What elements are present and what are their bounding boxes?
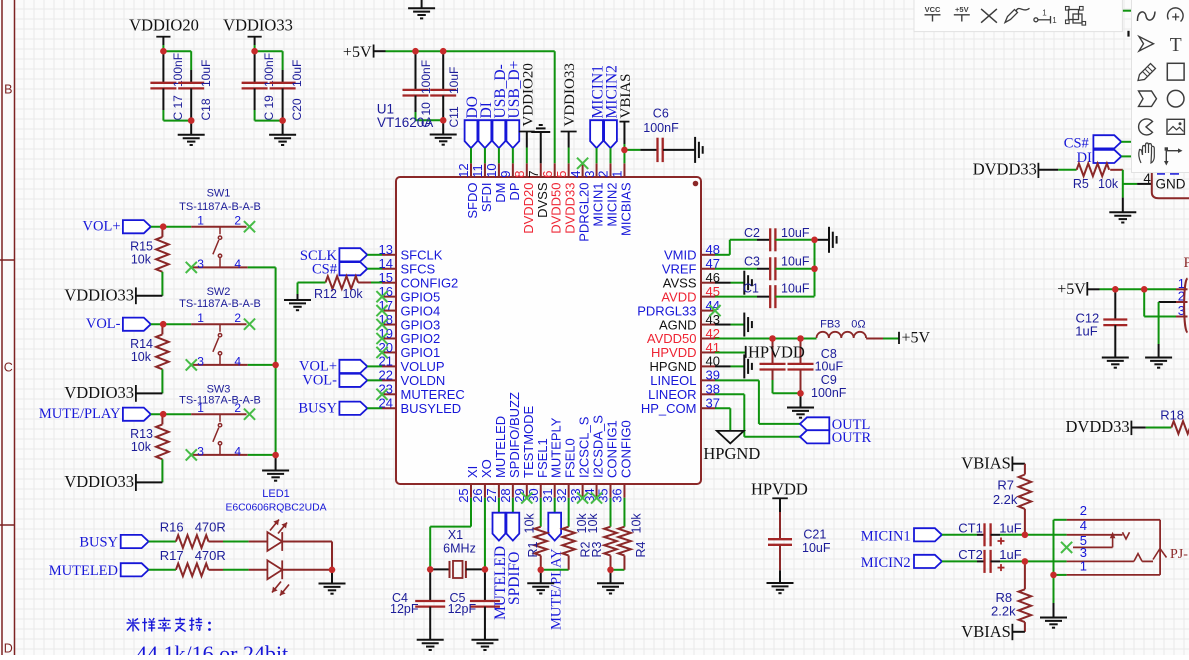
- svg-text:100nF: 100nF: [811, 386, 847, 400]
- no-connect X pin 20: [376, 347, 387, 358]
- svg-text:1uF: 1uF: [999, 547, 1021, 562]
- net flag HPVDD pin41: [715, 342, 805, 361]
- wire: [223, 569, 249, 571]
- ic U1 bottom pin 35 CONFIG1: [596, 420, 620, 503]
- svg-text:LED1: LED1: [262, 488, 290, 500]
- svg-text:10: 10: [484, 163, 499, 177]
- jack right edge: [1159, 520, 1161, 575]
- svg-text:28: 28: [498, 488, 513, 502]
- wire: [610, 498, 612, 527]
- svg-text:MICIN2: MICIN2: [605, 183, 620, 227]
- svg-text:VBIAS: VBIAS: [961, 454, 1011, 473]
- capacitor C12 1uF: [1075, 289, 1127, 357]
- wire: [331, 542, 333, 570]
- ic U1 bottom pin 25 XI: [456, 466, 480, 503]
- no-connect X pin 29: [521, 492, 532, 503]
- ic U1 left pin 24 BUSYLED: [379, 396, 462, 416]
- port flag VOL-: [302, 373, 382, 389]
- net flag VBIAS pin1: [618, 73, 634, 163]
- svg-text:3: 3: [582, 171, 597, 178]
- wire pin38: [715, 394, 800, 437]
- wire: [540, 498, 542, 527]
- svg-text:DVDD20: DVDD20: [521, 183, 536, 234]
- junction: [427, 566, 434, 573]
- svg-text:TS-1187A-B-A-B: TS-1187A-B-A-B: [179, 394, 261, 406]
- svg-text:VDDIO33: VDDIO33: [64, 285, 134, 304]
- no-connect X pin5: [1061, 542, 1072, 553]
- junction: [440, 117, 447, 124]
- ground: [1109, 198, 1136, 223]
- svg-text:C 19: C 19: [262, 95, 276, 121]
- capacitor C17 100nF: [150, 51, 185, 120]
- svg-text:26: 26: [470, 488, 485, 502]
- svg-text:100nF: 100nF: [643, 121, 679, 135]
- icon rect: [1167, 63, 1184, 80]
- icon arc pie: [1139, 119, 1153, 135]
- svg-text:10k: 10k: [586, 513, 600, 534]
- svg-text:SW2: SW2: [207, 286, 231, 298]
- no-connect X: [186, 359, 197, 370]
- capacitor C5 12pF: [448, 569, 500, 639]
- jack arrow: [1110, 532, 1116, 548]
- wire: [161, 369, 163, 393]
- ground: [527, 570, 554, 594]
- junction: [797, 335, 804, 342]
- junction: [1022, 532, 1029, 539]
- ic U1 top pin 11 SFDI: [470, 163, 494, 212]
- svg-text:GND: GND: [1156, 177, 1186, 192]
- svg-text:10uF: 10uF: [781, 226, 810, 240]
- svg-text:CT2: CT2: [958, 547, 983, 562]
- svg-text:1: 1: [197, 401, 204, 415]
- led arrows: [270, 520, 287, 534]
- wire pin4 row: [1025, 534, 1123, 536]
- port flag VOL-: [86, 316, 151, 332]
- wire pin42: [715, 338, 773, 340]
- svg-text:10k: 10k: [131, 350, 152, 364]
- svg-text:GPIO4: GPIO4: [401, 303, 441, 318]
- ground: [815, 227, 837, 253]
- junction: [1050, 572, 1057, 579]
- svg-text:4: 4: [234, 355, 241, 369]
- svg-text:10uF: 10uF: [815, 360, 844, 374]
- ic U1 top pin 6 DVDD50: [540, 163, 564, 233]
- ic U1 left pin 14 SFCS: [379, 256, 436, 276]
- jack pin numbers: [1080, 503, 1087, 574]
- port flag SPDIFO: [506, 498, 523, 605]
- svg-text:VDDIO33: VDDIO33: [223, 16, 293, 35]
- icon +5V: [954, 5, 970, 22]
- wire: [1123, 170, 1152, 198]
- svg-text:VOL+: VOL+: [83, 219, 121, 235]
- svg-text:BUSY: BUSY: [298, 401, 337, 417]
- svg-text:SPDIFO: SPDIFO: [506, 552, 523, 605]
- svg-text:R14: R14: [130, 337, 153, 351]
- svg-text:VMID: VMID: [664, 248, 697, 263]
- power flag +5V: [343, 44, 386, 61]
- tool panel: [1132, 0, 1189, 173]
- ic U1 top pin 4 PDRGL20: [568, 163, 592, 241]
- ground: [767, 582, 794, 584]
- no-connect X pin 34: [591, 492, 602, 503]
- svg-text:MICBIAS: MICBIAS: [618, 182, 633, 236]
- svg-text:R1: R1: [526, 541, 540, 557]
- svg-text:12pF: 12pF: [448, 602, 477, 616]
- svg-text:R18: R18: [1160, 407, 1184, 422]
- ic U1 right pin 38 LINEOR: [648, 382, 720, 402]
- ic U1 bottom pin 30 FSEL1: [526, 438, 550, 503]
- port flag VOL+: [83, 219, 151, 235]
- net flag VDDIO20 pin8: [519, 63, 537, 163]
- wire: [223, 541, 249, 543]
- svg-text:6: 6: [540, 171, 555, 178]
- ic U1 bottom pin 36 CONFIG0: [610, 420, 634, 503]
- wire: [248, 266, 276, 268]
- icon bezier: [1137, 12, 1155, 22]
- net flag VDDIO33 pin5: [561, 63, 579, 163]
- ic U1 top pin 5 DVDD33: [554, 163, 578, 233]
- svg-text:DVDD33: DVDD33: [1066, 417, 1130, 436]
- svg-text:5: 5: [554, 171, 569, 178]
- ic U1 bottom pin 26 XO: [470, 459, 494, 503]
- svg-text:X1: X1: [448, 528, 463, 542]
- svg-text:VT1620A: VT1620A: [377, 115, 433, 130]
- wire: [248, 454, 276, 456]
- junction: [621, 147, 628, 154]
- wire jack common: [1053, 520, 1055, 575]
- svg-text:1uF: 1uF: [1075, 324, 1097, 339]
- wire xtal left: [430, 498, 471, 570]
- svg-text:+5V: +5V: [1057, 281, 1086, 298]
- svg-text:GPIO5: GPIO5: [401, 289, 441, 304]
- junction: [160, 48, 167, 55]
- svg-text:VBIAS: VBIAS: [961, 622, 1011, 641]
- wire pin2 row: [1054, 519, 1161, 521]
- svg-text:DVDD50: DVDD50: [549, 183, 564, 234]
- svg-text:R15: R15: [130, 240, 153, 254]
- svg-text:PDRGL20: PDRGL20: [577, 183, 592, 242]
- capacitor C10 100nF: [403, 51, 434, 127]
- port flag MICIN1: [590, 65, 607, 163]
- svg-text:470R: 470R: [195, 520, 226, 535]
- svg-text:AVDD: AVDD: [661, 289, 696, 304]
- svg-text:HPVDD: HPVDD: [748, 342, 805, 361]
- svg-text:C21: C21: [803, 527, 826, 541]
- svg-text:MUTELED: MUTELED: [493, 416, 508, 478]
- port flag MICIN1: [861, 528, 977, 544]
- svg-text:DM: DM: [493, 183, 508, 203]
- svg-text:0Ω: 0Ω: [851, 318, 865, 330]
- svg-text:MUTELED: MUTELED: [49, 563, 118, 579]
- no-connect X pin 19: [376, 333, 387, 344]
- ground: [1102, 357, 1129, 359]
- svg-text:AVDD50: AVDD50: [647, 331, 697, 346]
- net flag DVDD33: [973, 160, 1059, 179]
- wire pin45: [715, 296, 757, 298]
- ic U1 bottom pin 28 SPDIFO/BUZZ: [498, 392, 522, 503]
- ic connector outline: [1152, 173, 1189, 198]
- svg-text:44.1k/16 or 24bit: 44.1k/16 or 24bit: [136, 641, 288, 655]
- wire pin5 row: [1073, 546, 1113, 548]
- capacitor C21 10uF: [768, 512, 831, 583]
- ic U1 bottom pin 29 TESTMODE: [512, 405, 536, 502]
- svg-text:C1: C1: [743, 282, 759, 296]
- port flag USB_D+: [506, 61, 523, 164]
- ground: [787, 393, 814, 417]
- wire: [416, 112, 444, 120]
- crystal X1 6MHz: [430, 528, 485, 578]
- svg-text:FSEL1: FSEL1: [535, 438, 550, 478]
- svg-text:MUTE/PLAY: MUTE/PLAY: [39, 406, 121, 422]
- ground: [262, 455, 289, 481]
- net stub: [1127, 31, 1129, 37]
- svg-text:3: 3: [197, 257, 204, 271]
- svg-text:HP_COM: HP_COM: [641, 401, 697, 416]
- capacitor C2 10uF: [744, 226, 814, 252]
- junction: [160, 223, 167, 230]
- port flag MUTELED (led): [49, 563, 176, 579]
- svg-text:4: 4: [1080, 518, 1087, 533]
- wire: [161, 459, 163, 482]
- svg-text:2: 2: [234, 401, 241, 415]
- wire: [1121, 155, 1131, 157]
- wire: [1159, 301, 1188, 303]
- resistor R15 10k: [130, 227, 169, 272]
- icon X: [981, 9, 997, 23]
- icon pencil: [1138, 64, 1156, 81]
- no-connect X pin 33: [577, 492, 588, 503]
- net flag DVDD33: [1066, 417, 1146, 436]
- svg-text:12pF: 12pF: [390, 602, 419, 616]
- ic U1 right pin 45 AVDD: [661, 284, 720, 304]
- svg-text:C: C: [4, 361, 13, 375]
- ic U1 right pin 43 AGND: [659, 312, 720, 332]
- svg-text:VCC: VCC: [925, 5, 941, 14]
- svg-text:9: 9: [498, 171, 513, 178]
- wire: [151, 323, 191, 325]
- port flag MUTE/PLAY: [548, 498, 564, 630]
- net flag HPVDD: [751, 479, 808, 512]
- capacitor C20 10uF: [270, 60, 305, 121]
- ground pin7 DVSS: [531, 125, 550, 163]
- ic U1 left pin 13 SFCLK: [379, 242, 443, 262]
- capacitor C11 10uF: [430, 51, 461, 127]
- svg-text:27: 27: [484, 488, 499, 502]
- svg-text:1: 1: [197, 213, 204, 227]
- no-connect X: [186, 449, 197, 460]
- svg-text:DVSS: DVSS: [535, 182, 550, 218]
- ic connector pin 4 GND: [1143, 171, 1185, 192]
- svg-text:3: 3: [197, 355, 204, 369]
- net flag VDDIO33: [64, 285, 162, 304]
- ic U1 right pin 42 AVDD50: [647, 326, 720, 346]
- svg-text:VOLUP: VOLUP: [401, 359, 445, 374]
- svg-text:HPGND: HPGND: [703, 444, 760, 463]
- ic U1 bottom pin 27 MUTELED: [484, 416, 508, 503]
- svg-text:2: 2: [234, 311, 241, 325]
- svg-text:10k: 10k: [1098, 177, 1119, 191]
- icon circle: [1167, 90, 1184, 107]
- svg-text:BUSYLED: BUSYLED: [401, 401, 462, 416]
- svg-text:10uF: 10uF: [199, 60, 213, 87]
- port flag MICIN2: [861, 555, 977, 571]
- ground: [743, 271, 745, 295]
- toolbar panel: [914, 0, 1122, 32]
- capacitor CT2 1uF polarized: [958, 547, 1025, 573]
- net flag HPGND arrow: [703, 431, 760, 463]
- wire pin37: [715, 408, 730, 431]
- wire: [1121, 141, 1131, 143]
- ic U1 left pin 23 MUTEREC: [379, 382, 465, 402]
- wire: [1176, 316, 1188, 318]
- svg-text:470R: 470R: [195, 548, 226, 563]
- ferrite bead FB3 0ohm: [817, 318, 884, 338]
- ic U1 right pin 47 VREF: [662, 256, 720, 276]
- ground: [284, 299, 311, 301]
- ic U1 top pin 10 DM: [484, 163, 508, 202]
- ground: [1145, 357, 1172, 359]
- svg-text:MUTEREC: MUTEREC: [401, 387, 465, 402]
- svg-text:C18: C18: [199, 98, 213, 120]
- svg-text:SFDI: SFDI: [479, 183, 494, 213]
- ic U1 bottom pin 32 FSEL0: [554, 438, 578, 503]
- svg-text:+5V: +5V: [902, 330, 931, 347]
- svg-text:R17: R17: [160, 548, 184, 563]
- svg-text:VDDIO20: VDDIO20: [520, 63, 536, 126]
- power flag +5V: [883, 330, 931, 347]
- svg-text:DVDD33: DVDD33: [973, 160, 1037, 179]
- svg-text:HPVDD: HPVDD: [751, 479, 808, 498]
- capacitor C3 10uF: [744, 254, 814, 280]
- junction: [440, 48, 447, 55]
- svg-text:4: 4: [1143, 171, 1151, 186]
- junction: [160, 411, 167, 418]
- svg-text:HPVDD: HPVDD: [651, 345, 697, 360]
- svg-text:VOL-: VOL-: [302, 373, 337, 389]
- svg-text:10uF: 10uF: [781, 282, 810, 296]
- port flag OUTL: [800, 417, 870, 433]
- svg-text:FB3: FB3: [820, 318, 840, 330]
- svg-text:R13: R13: [130, 427, 153, 441]
- port flag OUTR: [800, 430, 872, 446]
- svg-text:TESTMODE: TESTMODE: [521, 405, 536, 478]
- icon image: [1167, 119, 1184, 134]
- wire pin1 row: [1054, 574, 1161, 576]
- svg-text:1: 1: [610, 171, 625, 178]
- jack switch contact: [1123, 532, 1130, 539]
- svg-text:R16: R16: [160, 520, 184, 535]
- no-connect X pin 23: [376, 389, 387, 400]
- svg-text:MICIN1: MICIN1: [591, 183, 606, 227]
- resistor R16 470R: [160, 520, 226, 548]
- ground: [743, 354, 745, 378]
- svg-text:10k: 10k: [131, 253, 152, 267]
- svg-text:10uF: 10uF: [781, 254, 810, 268]
- ic U1 top pin 8 DVDD20: [512, 163, 536, 233]
- svg-text:VOLDN: VOLDN: [401, 373, 446, 388]
- svg-text:CT1: CT1: [958, 520, 983, 535]
- port flag USB_D-: [492, 64, 509, 163]
- junction: [329, 567, 336, 574]
- port flag CS#: [1064, 135, 1122, 151]
- icon arrowhead: [1139, 37, 1154, 52]
- svg-text:MICIN1: MICIN1: [861, 528, 911, 544]
- ic U1 left pin 20 GPIO1: [379, 340, 441, 360]
- wire: [773, 392, 801, 394]
- port flag DO: [464, 96, 481, 163]
- icon wire pen: [1005, 8, 1030, 22]
- icon VCC: [925, 5, 941, 22]
- svg-text:8: 8: [512, 171, 527, 178]
- svg-text:6MHz: 6MHz: [443, 541, 476, 555]
- net flag VDDIO33: [64, 383, 162, 402]
- ground: [430, 120, 457, 144]
- svg-text:BUSY: BUSY: [79, 535, 118, 551]
- svg-text:MUTEPLY: MUTEPLY: [549, 417, 564, 478]
- svg-text:31: 31: [540, 488, 555, 502]
- svg-text:SFDO: SFDO: [465, 183, 480, 219]
- svg-text:TS-1187A-B-A-B: TS-1187A-B-A-B: [179, 201, 261, 213]
- resistor R13 10k: [130, 414, 169, 459]
- junction: [811, 237, 818, 244]
- wire: [1158, 302, 1160, 358]
- junction: [537, 567, 544, 574]
- sheet frame border column: [0, 0, 15, 655]
- svg-text:I2CSCL_S: I2CSCL_S: [577, 416, 592, 478]
- svg-text:GPIO1: GPIO1: [401, 345, 441, 360]
- svg-text:R12: R12: [314, 287, 337, 301]
- capacitor C18 10uF: [178, 60, 213, 121]
- wire: [151, 413, 191, 415]
- port flag DI: [1077, 150, 1122, 166]
- ic U1 right pin 39 LINEOL: [650, 368, 720, 388]
- ground: [269, 121, 296, 145]
- svg-text:25: 25: [456, 488, 471, 502]
- no-connect X pin 17: [376, 305, 387, 316]
- svg-text:C3: C3: [744, 254, 760, 268]
- svg-text:1: 1: [1052, 16, 1057, 25]
- svg-text:1: 1: [1080, 559, 1087, 574]
- resistor R14 10k: [130, 324, 169, 369]
- ic U1 right pin 46 AVSS: [663, 270, 720, 290]
- svg-text:D: D: [4, 642, 13, 656]
- wire: [161, 272, 163, 296]
- wire: [611, 569, 625, 571]
- svg-text:2.2k: 2.2k: [991, 603, 1016, 618]
- port flag MUTE/PLAY: [39, 406, 151, 422]
- resistor R3 10k: [586, 513, 617, 570]
- junction: [1141, 286, 1148, 293]
- resistor R2 10k: [562, 498, 592, 570]
- svg-text:1: 1: [1042, 9, 1047, 18]
- svg-text:VBIAS: VBIAS: [618, 73, 634, 118]
- resistor R5 10k: [1073, 164, 1123, 192]
- icon netlabel: [1034, 9, 1057, 26]
- icon polygon: [1139, 91, 1157, 106]
- port flag SCLK: [300, 248, 382, 264]
- svg-text:10k: 10k: [131, 440, 152, 454]
- wire pin3 row: [1025, 549, 1167, 562]
- no-connect X: [244, 319, 255, 330]
- icon hand: [1139, 143, 1155, 163]
- wire pin39: [715, 380, 800, 424]
- ic U1 right pin 40 HPGND: [650, 354, 720, 374]
- port flag BUSY: [298, 401, 382, 417]
- ic U1 bottom pin 33 I2CSCL_S: [568, 416, 592, 503]
- no-connect X: [244, 409, 255, 420]
- svg-text:3: 3: [1080, 545, 1087, 560]
- ic U1 top pin 9 DP: [498, 163, 522, 200]
